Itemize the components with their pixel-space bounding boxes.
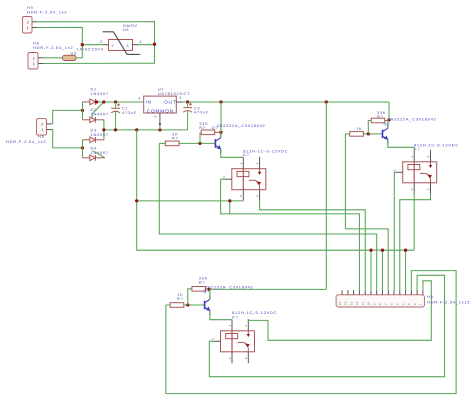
wire +V rail to U1 IN: [97, 101, 144, 103]
lead 33K right (driver3): [385, 120, 389, 122]
wire driver2 input rail to header pin3: [166, 271, 456, 394]
svg-text:812H-1C-S-12VDC: 812H-1C-S-12VDC: [243, 148, 288, 153]
lead 33K right (driver2): [205, 288, 209, 290]
diode D2 lead right: [95, 119, 104, 121]
wire rail 200 to relay1 pin2: [137, 200, 243, 202]
varistor U6 GMOV: [109, 40, 133, 51]
junction H5.2 bridge: [81, 109, 84, 112]
svg-text:HDR-F-2.54_1x15: HDR-F-2.54_1x15: [427, 299, 470, 304]
svg-text:12: 12: [355, 301, 359, 305]
svg-text:1: 1: [139, 40, 142, 44]
svg-text:470uF: 470uF: [122, 110, 137, 115]
junction rail250 pin8: [381, 249, 384, 252]
diode D4 lead right: [95, 157, 105, 159]
wire +15V down to Q2 rail: [325, 102, 327, 289]
wire Q3 collector short: [387, 120, 389, 128]
wire Q1 emitter to relay1 pin1: [221, 149, 244, 157]
junction rail250 pin4: [404, 249, 407, 252]
diode D1 lead left: [83, 101, 90, 103]
svg-text:3: 3: [211, 338, 215, 340]
svg-text:UA7815CKCT: UA7815CKCT: [158, 91, 191, 96]
resistor R 33K (driver1): [201, 130, 215, 135]
resistor R 33K (driver3): [371, 118, 385, 123]
svg-text:1N4007: 1N4007: [91, 91, 109, 96]
junction rail250 pin10: [369, 249, 372, 252]
wire collector short: [220, 132, 222, 138]
junction H9.1/varistor2/fuse: [81, 43, 84, 46]
junction C2 top: [186, 100, 189, 103]
diode D3 1N4007: [90, 137, 96, 143]
junction varistor1 on right net: [153, 43, 156, 46]
svg-text:U6: U6: [123, 27, 130, 32]
svg-text:10: 10: [367, 301, 371, 305]
svg-text:1N4007: 1N4007: [91, 132, 109, 137]
junction GND rail200: [135, 199, 138, 202]
resistor R 1K (driver3): [350, 132, 364, 137]
svg-text:2: 2: [41, 123, 43, 127]
svg-text:1: 1: [228, 325, 232, 327]
lead 33K right (driver1): [215, 131, 221, 133]
svg-text:2N2222A_C3018942: 2N2222A_C3018942: [217, 123, 266, 128]
junction U1 common: [158, 128, 161, 131]
wire relay2 pin4 to header pin1: [248, 281, 431, 341]
connector H8 HDR-F-2.54_1x2: [28, 53, 38, 70]
junction Q1 collector: [219, 131, 222, 134]
svg-text:2: 2: [112, 44, 114, 48]
junction Q2 collector: [207, 288, 210, 291]
svg-text:R?: R?: [199, 125, 206, 130]
diode D1 1N4007: [90, 99, 96, 105]
junction rail200 drop: [228, 199, 231, 202]
svg-text:2: 2: [100, 40, 103, 44]
wire junction to fuse right: [76, 45, 82, 58]
junction D1 cathode: [95, 100, 98, 103]
wire relay1 pin2 to rail200: [242, 200, 244, 202]
wire relay1 pin3 to header pin12: [221, 179, 360, 290]
svg-text:812H-1C-S-12VDC: 812H-1C-S-12VDC: [232, 310, 277, 315]
svg-text:5: 5: [244, 357, 248, 359]
wire rail250 to header pin8: [382, 250, 384, 290]
svg-text:15: 15: [338, 301, 342, 305]
wire 1K left lead: [159, 142, 165, 144]
wire H5.2 to bridge top: [52, 110, 83, 124]
junction base/33K d2: [186, 303, 189, 306]
svg-text:1: 1: [33, 62, 35, 66]
svg-text:812H-1C-S-12VDC: 812H-1C-S-12VDC: [414, 142, 459, 147]
svg-text:1: 1: [239, 163, 243, 165]
svg-text:5: 5: [255, 195, 259, 197]
resistor R 33K (driver2): [192, 287, 206, 292]
wire 1K to Q1 base: [179, 142, 215, 144]
svg-text:HDR-F-2.54_1x2: HDR-F-2.54_1x2: [27, 9, 67, 14]
diode D1 lead right: [95, 101, 96, 103]
wire varistor pin 1 to net: [138, 44, 155, 46]
svg-text:3: 3: [179, 96, 182, 100]
capacitor C2 470uF: [183, 102, 192, 130]
fuse U5 1A/AC250V: [62, 55, 76, 60]
svg-text:2: 2: [33, 56, 35, 60]
svg-text:1: 1: [127, 44, 129, 48]
wire to varistor pin 2: [82, 44, 103, 46]
svg-text:HDR-F-2.54_1x2: HDR-F-2.54_1x2: [6, 139, 46, 144]
wire bridge right vertical D2-D3: [103, 120, 105, 140]
junction Q1 collector feed: [219, 100, 222, 103]
wire diagonal D1 cathode to D2: [92, 102, 104, 118]
svg-text:2N2222A_C3018942: 2N2222A_C3018942: [205, 284, 254, 289]
wire common rail: [104, 129, 187, 131]
wire up to 33K left d3: [368, 121, 371, 134]
svg-text:470uF: 470uF: [194, 110, 209, 115]
svg-text:2: 2: [27, 20, 29, 24]
wire 1K to Q3 base: [363, 133, 382, 135]
wire 1K to Q2 base: [184, 304, 205, 306]
svg-text:R?: R?: [172, 135, 179, 140]
wire H9.1 down: [37, 27, 82, 44]
wire H5.1 to bridge bottom: [52, 130, 83, 148]
svg-text:2N2222A_C3018942: 2N2222A_C3018942: [388, 116, 437, 121]
svg-text:4: 4: [244, 325, 248, 327]
transistor Q1 2N2222A: [215, 134, 221, 154]
diode D3 lead right: [95, 139, 104, 141]
wire H8.2 to fuse left: [43, 57, 62, 59]
junction C1 bottom: [114, 128, 117, 131]
transistor Q2 2N2222A: [205, 295, 211, 315]
U1 pin2 end dot: [159, 123, 161, 125]
wire Q2 collector rail right: [209, 288, 326, 290]
svg-text:1: 1: [41, 128, 43, 132]
svg-text:11: 11: [361, 302, 365, 305]
resistor R 1K (driver1): [165, 141, 179, 146]
wire relay3 pin2 down to rail250: [413, 194, 415, 250]
diode D4 lead left: [83, 157, 90, 159]
wire bridge left top vertical: [82, 102, 84, 120]
U1 pin 3 stub: [176, 101, 183, 103]
svg-text:OUT: OUT: [164, 100, 176, 106]
wire 1K left lead d3: [345, 133, 349, 135]
wire relay2 pin3 to header pin2: [209, 275, 444, 376]
svg-text:1: 1: [138, 96, 141, 100]
svg-text:HDR-F-2.54_1x2: HDR-F-2.54_1x2: [33, 45, 73, 50]
junction +15V drop to Q-bottom: [325, 100, 328, 103]
junction base/33K d3: [367, 132, 370, 135]
diode D4 1N4007: [90, 155, 96, 161]
svg-text:2: 2: [154, 115, 158, 118]
wire Q2 emitter to relay2 pin1: [210, 311, 232, 320]
junction GND drop: [135, 128, 138, 131]
wire net H9.2-H8.1-varistor.1: [37, 22, 155, 64]
svg-text:3: 3: [393, 169, 397, 171]
diode D3 lead left: [83, 139, 90, 141]
connector H6 HDR-F-2.54_1x15: [336, 295, 424, 307]
wire Q3 emitter to relay3 pin1: [388, 140, 414, 148]
svg-text:14: 14: [344, 301, 348, 305]
resistor R 1K (driver2): [170, 303, 184, 308]
wire +15V down to Q3 collector: [388, 102, 390, 120]
svg-text:4: 4: [426, 156, 430, 158]
svg-text:Q?: Q?: [384, 121, 391, 126]
relay K1 812H-1C-S-12VDC: [222, 157, 266, 201]
wire up to 33K left d2: [188, 289, 192, 305]
wire 1K left lead d2: [166, 304, 170, 306]
svg-text:IN: IN: [146, 100, 152, 106]
wire collector up to +15V: [220, 102, 222, 132]
junction diagonal on +V rail: [102, 100, 105, 103]
wire driver1 input to header pin9: [159, 143, 376, 290]
diode D2 1N4007: [90, 117, 96, 123]
wire Q2 collector short: [209, 289, 211, 299]
junction base/33K: [198, 142, 201, 145]
wire diagonal D4 to D3: [93, 151, 105, 158]
svg-text:2: 2: [228, 357, 232, 359]
connector H9 HDR-F-2.54_1x2: [23, 17, 33, 34]
wire rail200 drop to rail214: [229, 201, 231, 214]
wire driver3 input to header pin7: [345, 134, 388, 290]
relay K2 812H-1C-S-12VDC: [211, 319, 255, 363]
wire bridge left bottom vertical: [82, 140, 84, 158]
svg-text:5: 5: [426, 188, 430, 190]
wire relay3 pin3 to header pin6: [394, 172, 395, 290]
wire +15V rail: [183, 101, 389, 103]
svg-text:2: 2: [239, 195, 243, 197]
wire rail250 to header pin4: [405, 250, 407, 290]
U1 pin 2 stub: [159, 113, 161, 124]
relay K3 812H-1C-S-12VDC: [393, 150, 437, 194]
connector H5 HDR-F-2.54_1x2: [37, 119, 47, 136]
junction Q3 collector: [387, 118, 390, 121]
svg-text:3: 3: [222, 176, 226, 178]
junction bridge mid rail: [102, 128, 105, 131]
svg-text:13: 13: [349, 301, 353, 305]
op-amp U1 UA7815CKCT regulator: [144, 96, 177, 113]
junction H5.1 bridge: [81, 146, 84, 149]
svg-text:K?: K?: [414, 147, 420, 152]
svg-text:2: 2: [410, 188, 414, 190]
svg-text:K?: K?: [232, 315, 238, 320]
wire relay1 pin5 to header pin11: [260, 201, 366, 290]
svg-text:4: 4: [255, 163, 259, 165]
capacitor C1 470uF: [111, 102, 120, 130]
transistor Q3 2N2222A: [383, 124, 389, 144]
wire up to 33K left: [199, 132, 201, 143]
wire into relay3 pin1: [413, 147, 415, 150]
junction C1 top: [114, 100, 117, 103]
wire rail250 to header pin10: [370, 250, 372, 290]
svg-text:1A/AC250V: 1A/AC250V: [77, 46, 104, 51]
wire relay3 pin5 to header pin5: [400, 194, 431, 290]
wire U1 common to rail: [159, 124, 161, 130]
wire GND vertical and rail 250: [137, 130, 415, 250]
svg-text:1: 1: [410, 156, 414, 158]
diode D2 lead left: [83, 119, 90, 121]
svg-text:R?: R?: [177, 296, 184, 301]
svg-text:K?: K?: [243, 152, 249, 157]
svg-text:1: 1: [27, 26, 29, 30]
